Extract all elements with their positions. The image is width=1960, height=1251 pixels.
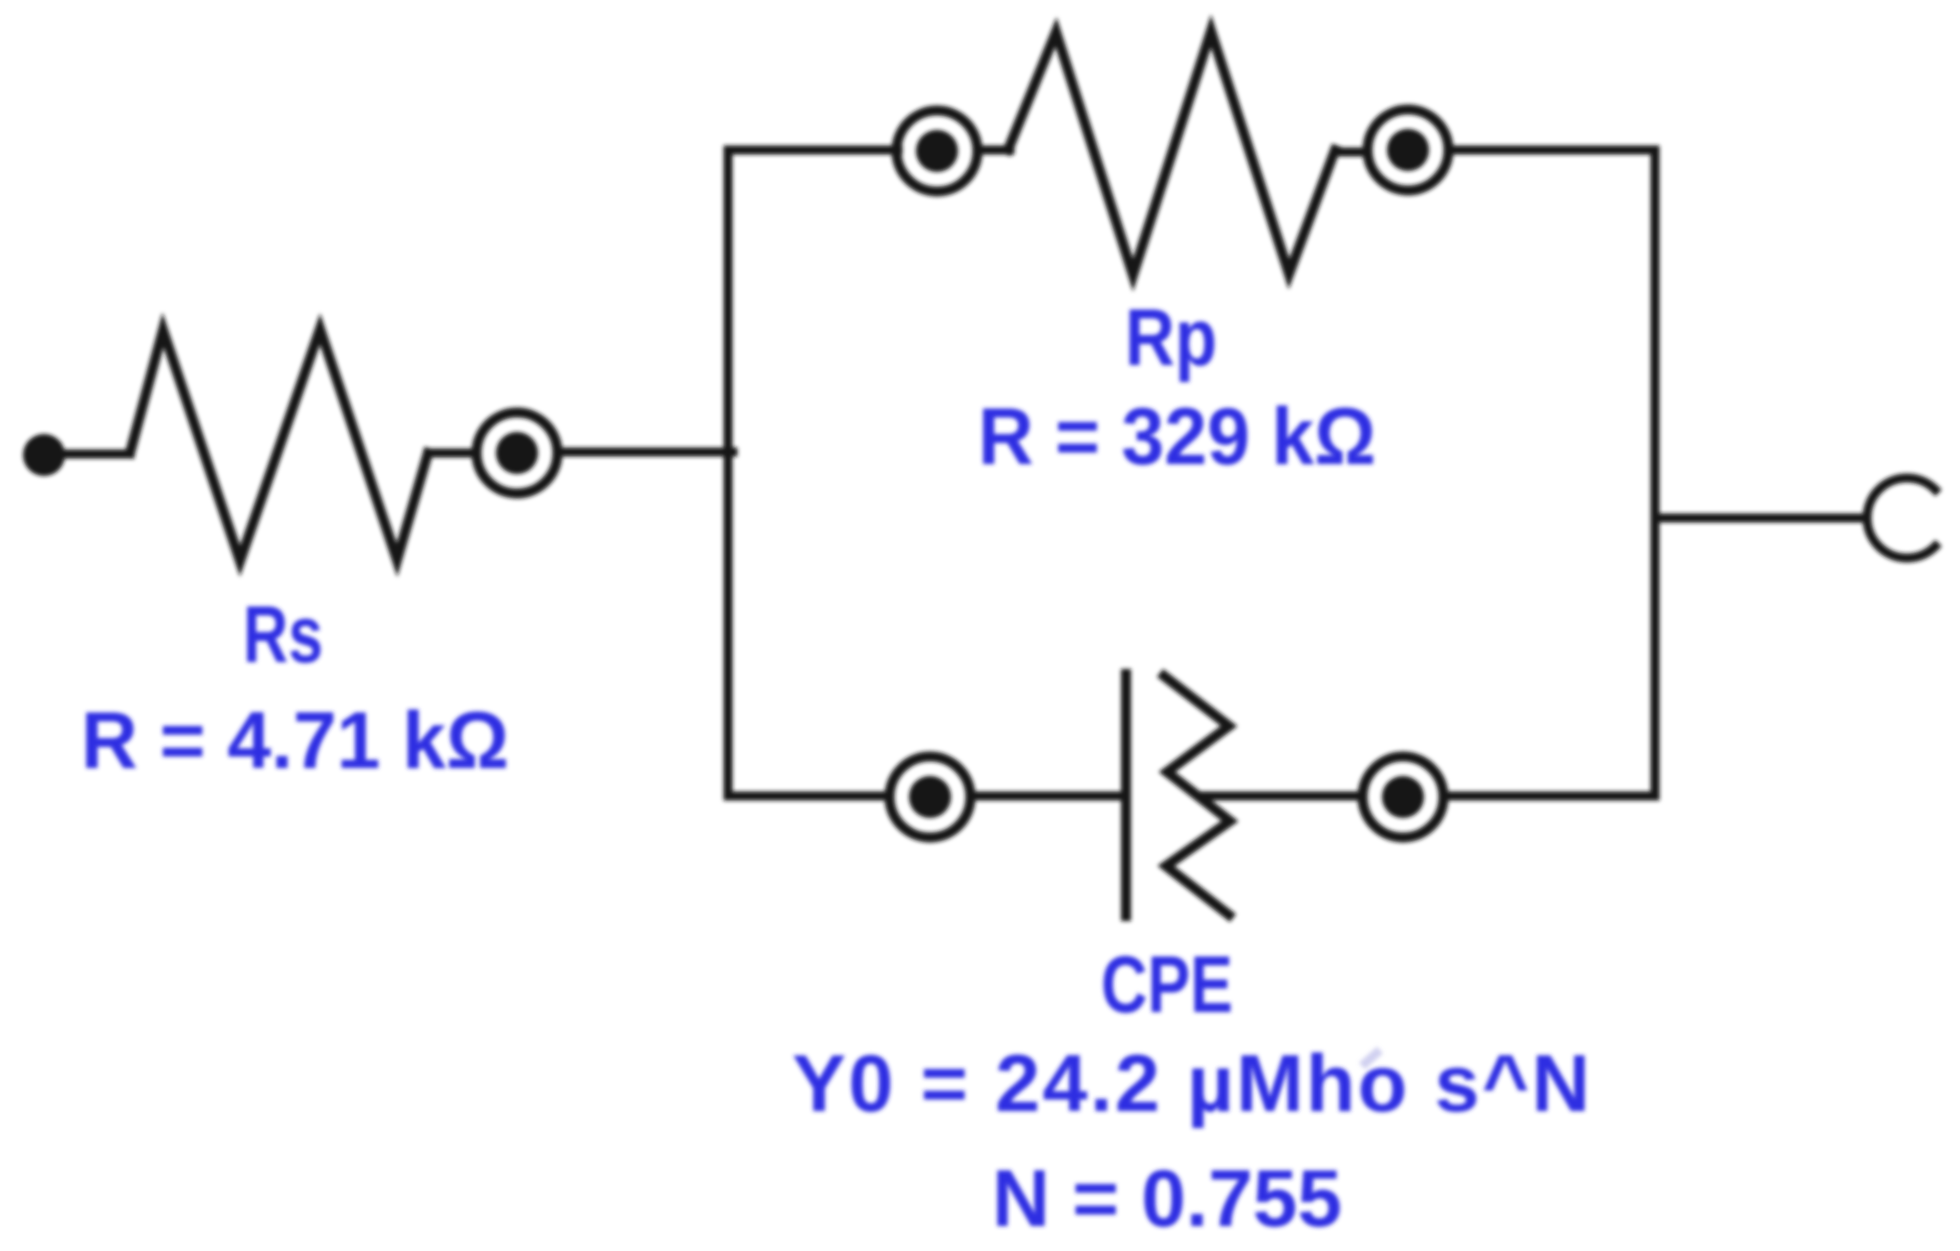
output open terminal [1867,478,1935,558]
svg-text:CPE: CPE [1101,940,1233,1030]
wire Rs to bullseye A [428,449,476,458]
wire bullseye B to Rp [978,146,1010,155]
wire output [1655,514,1864,523]
wire input lead [62,450,130,459]
terminal bullseye C outer [1368,110,1449,191]
wire CPE to bullseye E [1200,792,1360,801]
wire Rp to bullseye C [1335,148,1368,157]
terminal bullseye D inner dot [909,776,951,818]
svg-text:Y0 = 24.2 µMho s^N: Y0 = 24.2 µMho s^N [792,1039,1590,1129]
input terminal dot [23,434,65,476]
wire bullseye D to CPE [971,792,1124,801]
svg-text:N = 0.755: N = 0.755 [992,1154,1342,1244]
wire right vertical [1651,150,1660,796]
resistor Rp [1008,31,1335,275]
terminal bullseye D outer [890,757,971,838]
terminal bullseye C inner dot [1387,129,1429,171]
resistor Rs [130,329,428,561]
CPE element plate [1121,674,1131,916]
svg-text:R = 329 kΩ: R = 329 kΩ [978,392,1376,482]
svg-text:Rp: Rp [1125,293,1217,383]
svg-text:R = 4.71 kΩ: R = 4.71 kΩ [81,696,509,786]
CPE element zigzag [1164,676,1230,915]
terminal bullseye B outer [897,111,978,192]
wire bullseye A to junction [558,448,733,457]
terminal bullseye E inner dot [1382,776,1424,818]
terminal bullseye A inner dot [496,432,538,474]
wire bottom branch left [728,792,889,801]
terminal bullseye B inner dot [916,130,958,172]
svg-text:Rs: Rs [243,590,323,680]
wire top branch right [1449,146,1655,155]
wire bottom branch right [1444,792,1655,801]
wire top branch left [728,146,898,155]
terminal bullseye E outer [1363,757,1444,838]
terminal bullseye A outer [477,413,558,494]
stray mark above s [1362,1050,1380,1066]
wire left vertical [724,150,733,796]
